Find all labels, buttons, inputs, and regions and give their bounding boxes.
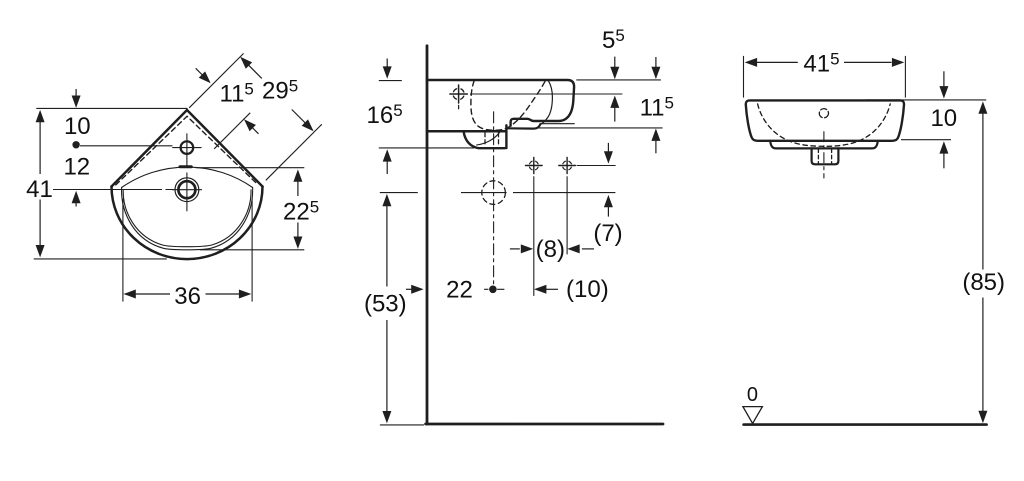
bottom level extension right xyxy=(901,139,951,141)
41.5 extension left xyxy=(743,56,745,98)
trap inner surface curve xyxy=(477,132,500,145)
rim bottom extension xyxy=(537,127,663,129)
inner-arc top level line xyxy=(196,167,305,169)
dimension (7) xyxy=(604,143,613,217)
dimension 11.5 (middle) xyxy=(651,57,660,153)
drain point ticks xyxy=(485,288,505,290)
dashed inner edge line xyxy=(116,116,258,185)
basin lower tier xyxy=(770,141,878,149)
left view dimension extension lines xyxy=(34,53,322,301)
floor line xyxy=(426,423,663,426)
hidden drain pipe dashed xyxy=(485,133,499,147)
diagonal extension A (peak) xyxy=(189,53,243,107)
dimension (53) xyxy=(382,194,391,424)
svg-text:(85): (85) xyxy=(962,269,1005,296)
dimension 16.5 xyxy=(383,59,392,175)
faucet hole (front) xyxy=(819,109,828,118)
drain outer circle xyxy=(175,178,199,202)
inner bowl second arc xyxy=(123,190,251,247)
dimension 10 (right) xyxy=(939,71,948,168)
drain level line xyxy=(53,189,174,191)
hidden drain dashed lines xyxy=(818,149,831,163)
top surface extension xyxy=(576,79,661,81)
faucet level extension xyxy=(470,93,622,95)
far rim edge curve xyxy=(541,81,553,124)
36 extension right xyxy=(251,199,253,302)
floor left tick xyxy=(380,424,424,426)
diagonal extension B (dashed line) xyxy=(214,113,250,149)
hidden bowl dashed profile xyxy=(471,81,545,131)
dimension (8) xyxy=(510,244,594,253)
trap bottom extension xyxy=(379,147,474,149)
basin top and right outline xyxy=(427,80,574,126)
svg-text:41: 41 xyxy=(26,176,53,203)
drain level lines xyxy=(380,192,616,194)
svg-text:22: 22 xyxy=(446,277,473,304)
top level left tick xyxy=(379,80,402,82)
dimension 10 (peak to faucet) xyxy=(72,89,81,149)
svg-text:(53): (53) xyxy=(364,291,407,318)
siphon trap right side xyxy=(505,125,507,148)
inner-arc bottom level line xyxy=(200,249,304,251)
svg-text:(10): (10) xyxy=(566,276,609,303)
fixing hole cross 2 xyxy=(563,161,572,170)
dimension 41.5 xyxy=(745,58,905,67)
drain hole dashed circle xyxy=(482,181,506,205)
svg-text:(7): (7) xyxy=(593,220,622,247)
svg-text:36: 36 xyxy=(174,283,201,310)
siphon trap xyxy=(464,131,505,148)
basin underside lip xyxy=(507,124,541,128)
inner rim lower arc xyxy=(122,188,253,250)
dimension (10) xyxy=(534,285,558,294)
diagonal extension C (right vertex) xyxy=(266,124,322,180)
top level extension right xyxy=(866,99,986,101)
outer corner edges xyxy=(112,110,263,187)
drain centerline vertical xyxy=(493,112,495,284)
vertical centerline xyxy=(823,132,825,178)
dimension 11.5 diagonal arrows xyxy=(196,68,259,134)
36 extension left xyxy=(122,199,124,302)
far rim lower edge xyxy=(540,123,574,125)
floor line xyxy=(744,423,987,426)
drain horizontal centerline xyxy=(172,189,201,191)
fixing hole drop line 1 xyxy=(533,176,535,296)
fixing hole level extension xyxy=(577,165,616,167)
svg-text:12: 12 xyxy=(63,154,90,181)
faucet hole cross (side) xyxy=(453,88,464,99)
datum triangle xyxy=(743,407,763,424)
faucet hole crosshair xyxy=(173,134,201,211)
svg-text:0: 0 xyxy=(747,384,758,406)
inner rim upper arc xyxy=(122,167,253,187)
dimension 5.5 xyxy=(610,57,619,122)
drain outlet point xyxy=(489,286,497,294)
bowl bottom level line xyxy=(34,258,167,260)
svg-text:10: 10 xyxy=(930,105,957,132)
faucet level line xyxy=(80,145,173,147)
dimension 22.5 (bowl inner depth) xyxy=(293,169,302,249)
middle view thin reference lines xyxy=(379,80,663,425)
dimension 29.5 diagonal arrows xyxy=(240,57,313,132)
dimension 22 xyxy=(406,285,424,294)
wall line xyxy=(426,46,429,424)
41.5 extension right xyxy=(904,56,906,98)
overflow slot mark xyxy=(180,165,191,168)
svg-text:10: 10 xyxy=(64,113,91,140)
basin bottom line xyxy=(427,130,506,133)
fixing hole drop line 2 xyxy=(566,176,568,254)
dimension 41 (overall depth) xyxy=(36,110,45,258)
hidden bowl dashed arc xyxy=(758,104,891,146)
outer bowl arc xyxy=(112,187,263,260)
svg-text:(8): (8) xyxy=(536,236,565,263)
fixing hole cross 1 xyxy=(529,161,538,170)
faucet hole circle xyxy=(181,141,194,154)
basin body outline xyxy=(746,100,904,140)
drain inner circle xyxy=(178,181,195,198)
drain fitting box xyxy=(812,148,839,164)
dimension (85) xyxy=(978,101,987,423)
dimension 12 (faucet to drain) xyxy=(72,191,81,207)
right view thin reference lines xyxy=(744,56,987,140)
dimension 36 (bowl width) xyxy=(123,290,251,299)
peak level line xyxy=(36,107,187,109)
